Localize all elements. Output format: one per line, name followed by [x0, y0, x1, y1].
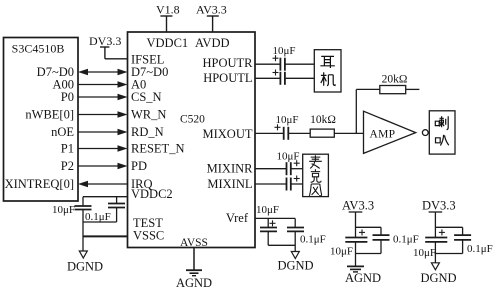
svg-text:0.1μF: 0.1μF	[393, 234, 419, 246]
svg-text:DGND: DGND	[277, 259, 313, 273]
svg-text:XINTREQ[0]: XINTREQ[0]	[5, 177, 74, 191]
svg-text:AV3.3: AV3.3	[342, 199, 374, 213]
svg-text:P1: P1	[61, 142, 74, 156]
svg-text:DGND: DGND	[420, 271, 456, 285]
svg-text:10μF: 10μF	[413, 247, 436, 259]
svg-text:DV3.3: DV3.3	[422, 199, 456, 213]
svg-text:CS_N: CS_N	[131, 90, 162, 104]
svg-text:RD_N: RD_N	[131, 125, 164, 139]
svg-text:AMP: AMP	[370, 129, 396, 141]
svg-text:10μF: 10μF	[275, 114, 298, 126]
svg-text:10μF: 10μF	[330, 246, 353, 258]
svg-text:0.1μF: 0.1μF	[467, 243, 493, 255]
svg-text:10μF: 10μF	[272, 45, 295, 57]
svg-text:20kΩ: 20kΩ	[382, 74, 408, 86]
svg-text:HPOUTR: HPOUTR	[202, 56, 253, 70]
svg-text:DV3.3: DV3.3	[89, 34, 121, 48]
svg-text:AGND: AGND	[176, 276, 212, 289]
svg-text:MIXOUT: MIXOUT	[203, 127, 253, 141]
svg-text:AVDD: AVDD	[195, 36, 230, 50]
svg-text:DGND: DGND	[67, 260, 103, 274]
svg-text:0.1μF: 0.1μF	[300, 234, 326, 246]
svg-text:HPOUTL: HPOUTL	[203, 71, 252, 85]
svg-text:AGND: AGND	[345, 271, 381, 285]
svg-text:AV3.3: AV3.3	[196, 3, 227, 17]
svg-text:P2: P2	[61, 159, 74, 173]
svg-text:MIXINR: MIXINR	[207, 162, 253, 176]
svg-text:nWBE[0]: nWBE[0]	[25, 108, 74, 122]
svg-text:AVSS: AVSS	[180, 237, 208, 249]
svg-text:C520: C520	[180, 114, 205, 126]
svg-text:V1.8: V1.8	[156, 3, 180, 17]
svg-text:10kΩ: 10kΩ	[310, 114, 336, 126]
svg-text:Vref: Vref	[226, 211, 249, 225]
svg-text:WR_N: WR_N	[131, 108, 166, 122]
svg-text:MIXINL: MIXINL	[207, 177, 252, 191]
svg-text:P0: P0	[61, 90, 74, 104]
svg-text:nOE: nOE	[51, 125, 74, 139]
svg-text:PD: PD	[131, 159, 147, 173]
svg-text:10μF: 10μF	[256, 204, 279, 216]
svg-text:VDDC2: VDDC2	[131, 187, 173, 201]
svg-text:S3C4510B: S3C4510B	[12, 42, 65, 56]
svg-text:10μF: 10μF	[52, 204, 75, 216]
svg-text:0.1μF: 0.1μF	[85, 211, 111, 223]
svg-text:VDDC1: VDDC1	[147, 36, 189, 50]
svg-text:RESET_N: RESET_N	[131, 142, 184, 156]
svg-text:VSSC: VSSC	[133, 229, 164, 243]
svg-text:10μF: 10μF	[276, 151, 299, 163]
